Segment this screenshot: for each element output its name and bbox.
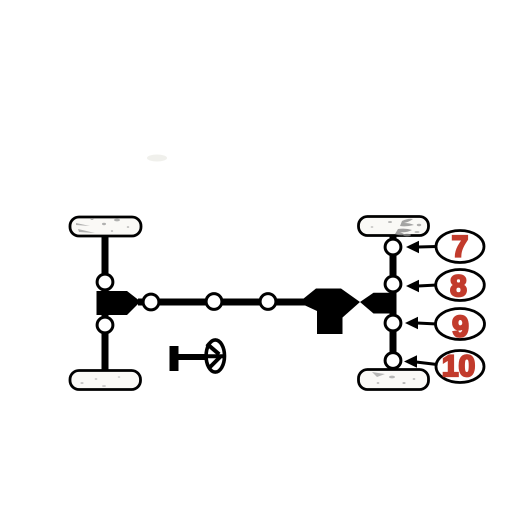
svg-text:9: 9	[452, 311, 469, 344]
svg-text:10: 10	[442, 350, 475, 383]
svg-text:7: 7	[452, 231, 469, 264]
svg-text:8: 8	[450, 270, 467, 303]
